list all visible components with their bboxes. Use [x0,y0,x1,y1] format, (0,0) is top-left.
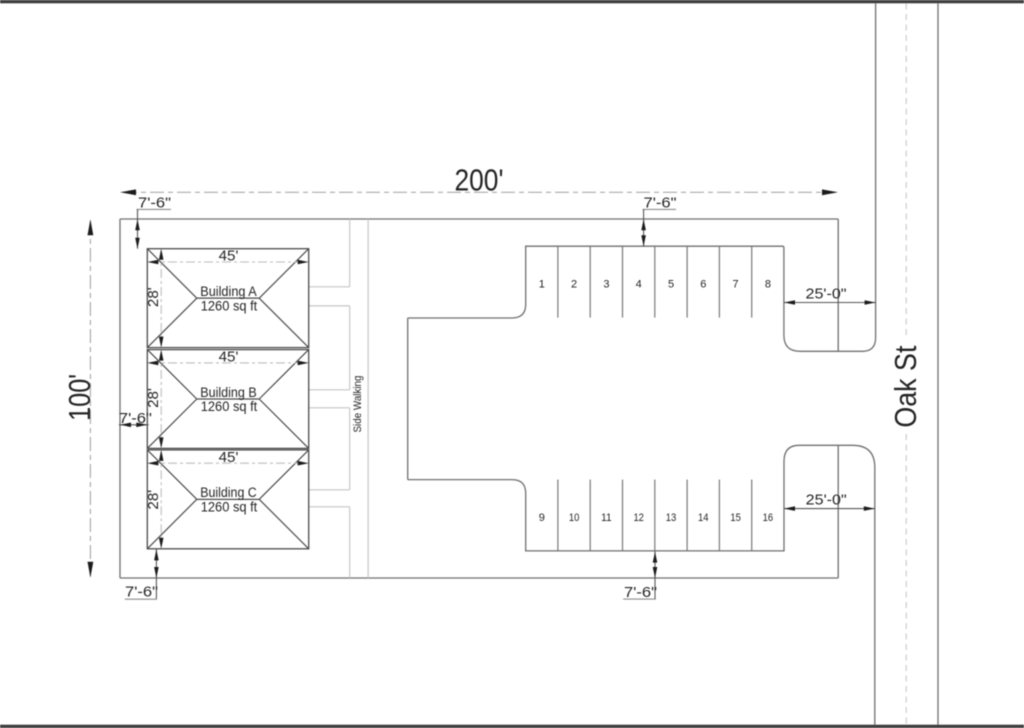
7'-6" bottom-left underline [125,598,157,600]
7'-6" top-center shaft [643,209,645,246]
walkway C bottom edge [309,506,350,508]
walkway A top edge [309,286,350,288]
25'-0" bottom dimension line [784,508,875,510]
parking lot west wing left edge [407,318,409,480]
svg-text:7: 7 [733,278,739,290]
25'-0" top right arrow [865,300,876,305]
building B 28' top arrow [159,350,164,361]
svg-text:1260 sq ft: 1260 sq ft [201,399,258,414]
building A outline [147,249,308,348]
svg-text:8: 8 [765,278,771,290]
site boundary bottom [120,577,838,579]
top stall divider 2|3 [589,246,591,317]
site boundary top [120,218,838,220]
200' dimension line (dashed) [123,191,835,193]
svg-text:45': 45' [219,450,239,466]
site boundary right upper segment [837,219,839,351]
7'-6" left-middle right arrow [136,423,147,428]
Oak St centerline (dashed) lower segment [905,434,907,725]
svg-text:200': 200' [455,164,504,198]
building B 45' left arrow [147,361,158,366]
svg-text:45': 45' [219,350,239,366]
building C 28' top arrow [159,450,164,461]
Oak St centerline (dashed) upper segment [905,4,907,340]
svg-text:Building C: Building C [200,485,257,500]
top border bar [0,0,1024,3]
25'-0" top left arrow [784,300,795,305]
25'-0" top dimension line [784,302,876,304]
building B 45' dim dashed [150,362,306,364]
building A ridge [197,297,259,299]
7'-6" left-middle left arrow [120,423,131,428]
25'-0" bottom left arrow [784,506,795,511]
7'-6" top-left shaft [137,209,139,248]
building A 28' top arrow [159,249,164,260]
7'-6" bottom-left up arrow [154,549,159,560]
7'-6" bottom-center down arrow [653,567,658,578]
building C 45' left arrow [147,461,158,466]
svg-text:25'-0": 25'-0" [806,493,847,509]
top stall divider 7|8 [751,246,753,317]
building C 45' dim dashed [150,462,306,464]
building C 45' right arrow [298,461,309,466]
100' bottom arrow [88,562,94,578]
building C outline [147,450,308,549]
svg-text:4: 4 [636,278,642,290]
building B ridge [197,398,259,400]
7'-6" bottom-center underline [623,598,656,600]
7'-6" bottom-center: shaft [654,551,656,599]
site boundary right lower segment [837,445,839,578]
25'-0" bottom right arrow [864,506,875,511]
svg-text:10: 10 [569,512,580,524]
walkway C top edge [309,489,350,491]
svg-text:5: 5 [668,278,674,290]
svg-text:13: 13 [666,512,677,524]
building A 45' left arrow [147,260,158,265]
7'-6" bottom-left down arrow [154,567,159,578]
svg-text:Building B: Building B [200,385,257,400]
svg-text:1: 1 [539,278,545,290]
7'-6" left-middle shaft/underline [119,424,149,426]
svg-text:1260 sq ft: 1260 sq ft [201,298,258,313]
7'-6" top-left up arrow [135,219,140,230]
100' dimension line (dashed) [89,221,91,576]
svg-text:7'-6": 7'-6" [125,585,158,601]
bottom stall divider 14|15 [718,480,720,551]
building A 45' right arrow [298,260,309,265]
building C hip roof diagonals [147,450,308,549]
sidewalk left edge seg3 [349,408,351,490]
svg-text:14: 14 [698,512,709,524]
walkway B bottom edge [309,407,350,409]
100' top arrow [88,219,94,235]
7'-6" top-left underline [137,208,172,210]
svg-text:28': 28' [146,490,162,510]
parking lot outline: west wing top edge, top row left edge, top row top edge, driveway-north left curb up to Oak St [408,4,876,352]
7'-6" top-left down arrow [135,238,140,249]
site boundary left [119,219,121,578]
building B 28' dim dashed [160,352,162,446]
svg-text:28': 28' [146,388,162,408]
svg-text:Side Walking: Side Walking [352,376,364,433]
bottom stall divider 13|14 [686,480,688,551]
svg-text:Oak St: Oak St [889,345,923,427]
building B outline [147,350,308,449]
svg-text:28': 28' [146,287,162,307]
building A hip roof diagonals [147,249,308,348]
7'-6" bottom-left: shaft [155,549,157,599]
top stall divider 1|2 [557,246,559,317]
svg-text:11: 11 [601,512,612,524]
top stall divider 6|7 [718,246,720,317]
Oak St east edge [937,4,939,725]
svg-text:1260 sq ft: 1260 sq ft [201,500,258,515]
bottom stall divider 15|16 [751,480,753,551]
building A 28' dim dashed [160,251,162,345]
7'-6" top-center down arrow [641,235,646,246]
building C 28' dim dashed [160,452,162,546]
bottom stall divider 9|10 [557,480,559,551]
top stall divider 4|5 [654,246,656,317]
svg-text:16: 16 [763,512,774,524]
svg-text:100': 100' [63,374,97,421]
walkway A bottom edge [309,305,350,307]
svg-text:15: 15 [730,512,741,524]
building B 28' bottom arrow [159,437,164,448]
building B 45' right arrow [298,361,309,366]
200' right arrow [822,189,838,195]
svg-text:25'-0": 25'-0" [806,286,847,302]
svg-text:2: 2 [571,278,577,290]
svg-text:3: 3 [603,278,609,290]
building B hip roof diagonals [147,350,308,449]
sidewalk right edge [367,219,369,578]
sidewalk left edge seg4 [349,507,351,578]
sidewalk left edge seg1 [349,219,351,287]
top stall divider 3|4 [622,246,624,317]
200' left arrow [120,189,136,195]
sidewalk left edge seg2 [349,306,351,390]
bottom stall divider 11|12 [622,480,624,551]
svg-text:9: 9 [539,512,545,524]
bottom stall divider 12|13 [654,480,656,551]
svg-text:Building A: Building A [200,284,257,299]
top stall divider 5|6 [686,246,688,317]
building A 45' dim dashed [150,261,306,263]
bottom border bar [0,725,1024,728]
svg-text:45': 45' [219,249,239,265]
building A 28' bottom arrow [159,337,164,348]
bottom stall divider 10|11 [589,480,591,551]
svg-text:12: 12 [633,512,644,524]
parking lot outline: west wing bottom edge, bottom row left edge, bottom row bottom edge, south driveway curb down to page bottom [408,445,875,724]
building C ridge [197,498,259,500]
building C 28' bottom arrow [159,538,164,549]
7'-6" top-center underline [643,208,677,210]
svg-text:6: 6 [700,278,706,290]
7'-6" bottom-center up arrow [653,552,658,563]
7'-6" top-center up arrow [641,219,646,230]
walkway B top edge [309,389,350,391]
